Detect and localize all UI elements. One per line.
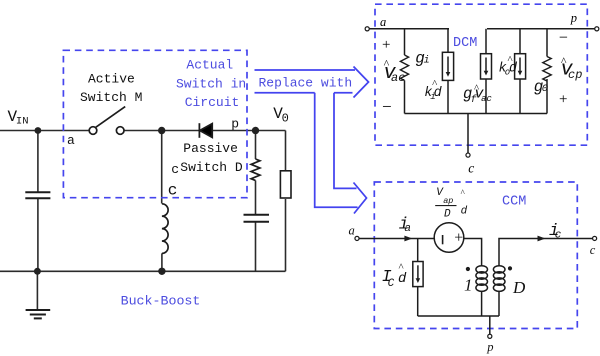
svg-text:p: p	[570, 11, 577, 25]
wire output RC top	[255, 131, 257, 160]
wire kid leg bottom	[447, 80, 449, 113]
terminal a DCM	[365, 27, 369, 31]
svg-text:cp: cp	[568, 68, 582, 82]
ground	[26, 310, 51, 318]
source Vap/D d circle	[434, 223, 464, 253]
svg-text:a: a	[349, 223, 355, 237]
label gi	[415, 50, 429, 68]
wire input cap bottom	[37, 198, 39, 271]
wire g0 leg bottom	[546, 79, 548, 114]
label IC d	[382, 262, 407, 290]
svg-text:Buck-Boost: Buck-Boost	[121, 294, 201, 309]
wire input cap top	[37, 131, 39, 193]
arrow band top line	[255, 69, 356, 71]
label gf vac	[463, 82, 492, 106]
label a DCM	[380, 15, 386, 29]
svg-text:c: c	[555, 229, 562, 241]
arrow band bottom line left	[255, 92, 315, 94]
terminal p CCM	[488, 334, 492, 338]
wire IC to bottom	[417, 287, 419, 316]
wire IC leg	[417, 239, 419, 262]
wire gfvac leg bottom	[485, 79, 487, 114]
dot winding 2	[508, 266, 512, 270]
svg-text:D: D	[512, 278, 526, 297]
svg-text:a: a	[67, 133, 75, 148]
arrow chevron top	[354, 67, 369, 98]
wire c tap	[467, 114, 469, 153]
label V0	[273, 105, 289, 126]
arrow branch outer	[315, 93, 358, 208]
svg-text:d: d	[461, 206, 468, 218]
label ki d	[424, 78, 442, 102]
resistor ESR zigzag	[251, 159, 260, 181]
inductor L	[162, 204, 168, 254]
wire inductor bottom	[161, 253, 163, 271]
label plus left	[382, 37, 390, 53]
node p junction	[252, 127, 259, 134]
svg-text:i: i	[424, 55, 430, 67]
arrowhead ic	[538, 236, 546, 242]
svg-text:DCM: DCM	[453, 36, 477, 51]
svg-text:c: c	[171, 162, 179, 177]
wire ia	[360, 238, 435, 240]
svg-text:c: c	[468, 160, 474, 175]
svg-text:Switch in: Switch in	[176, 77, 246, 92]
terminal p DCM	[595, 27, 599, 31]
label p DCM	[570, 11, 577, 25]
svg-text:ac: ac	[391, 71, 405, 85]
svg-text:Switch D: Switch D	[180, 160, 243, 175]
input capacitor	[25, 192, 50, 198]
label node a	[67, 133, 75, 148]
resistor gi	[400, 55, 408, 80]
svg-text:+: +	[382, 37, 390, 53]
label ia	[399, 216, 411, 236]
wire winding2 bottom	[498, 291, 500, 316]
source gf vac	[481, 54, 492, 79]
label a CCM	[349, 223, 355, 237]
svg-text:C: C	[388, 278, 395, 290]
label c DCM	[468, 160, 474, 175]
wire kod leg top	[519, 29, 521, 54]
label ko d	[499, 54, 519, 78]
wire kid leg top	[447, 29, 449, 53]
label DCM	[453, 36, 477, 51]
svg-text:−: −	[382, 97, 392, 116]
svg-text:−: −	[559, 30, 568, 47]
dashed box actual switch	[63, 50, 247, 197]
wire winding2 top	[499, 239, 540, 266]
label Active Switch M	[80, 72, 142, 106]
svg-text:0: 0	[282, 112, 289, 126]
svg-text:+: +	[559, 92, 567, 108]
svg-text:Switch M: Switch M	[80, 90, 142, 105]
label Replace with	[259, 76, 353, 91]
svg-text:p: p	[486, 340, 493, 354]
wire gi leg top	[404, 29, 406, 55]
label VIN	[8, 108, 29, 128]
terminal c CCM	[593, 236, 597, 240]
svg-text:Circuit: Circuit	[185, 95, 240, 110]
label c CCM	[590, 243, 596, 257]
svg-text:+: +	[454, 230, 463, 247]
wire load bottom	[285, 199, 287, 271]
svg-text:c: c	[590, 243, 596, 257]
svg-text:Passive: Passive	[183, 141, 238, 156]
label g0	[534, 78, 548, 96]
switch M contacts	[89, 127, 124, 135]
svg-text:0: 0	[542, 83, 548, 95]
dot winding 1	[466, 267, 470, 271]
transformer winding 1	[476, 266, 488, 292]
svg-text:a: a	[404, 223, 411, 235]
wire ic	[540, 238, 592, 240]
wire top left cell	[369, 28, 449, 30]
switch M lever	[96, 107, 126, 128]
wire cap to bottom	[255, 222, 257, 272]
diode D	[199, 123, 212, 138]
node ground junction	[34, 268, 41, 275]
wire bottom rail DCM	[405, 113, 548, 115]
resistor g0	[543, 57, 551, 81]
wire source to xfmr	[464, 239, 482, 266]
label v ac hat	[383, 56, 405, 84]
label node c	[168, 182, 178, 200]
dashed box DCM	[375, 4, 587, 145]
svg-text:IN: IN	[16, 116, 29, 128]
label CCM	[502, 195, 526, 210]
load resistor R	[280, 171, 291, 198]
label p CCM	[486, 340, 493, 354]
label v cp hat	[561, 54, 583, 82]
svg-text:a: a	[380, 15, 386, 29]
wire switch to diode	[124, 130, 199, 132]
terminal c DCM	[466, 153, 470, 157]
label plus right	[559, 92, 567, 108]
label Buck-Boost	[121, 294, 201, 309]
svg-text:D: D	[444, 208, 451, 220]
label Passive Switch D	[180, 141, 243, 175]
label node c small	[171, 162, 179, 177]
node inductor junction	[158, 268, 165, 275]
arrowhead ia	[404, 236, 412, 242]
terminal a CCM	[355, 236, 359, 240]
svg-text:p: p	[231, 117, 239, 132]
svg-text:^: ^	[460, 188, 465, 198]
wire diode to V0 node	[211, 130, 285, 132]
svg-text:CCM: CCM	[502, 195, 526, 210]
label Actual Switch in Circuit	[176, 58, 246, 111]
arrow band bottom line right	[334, 92, 353, 94]
wire top right cell	[487, 28, 595, 30]
source IC d rect	[413, 262, 423, 287]
wire ground stem	[36, 271, 38, 310]
svg-text:Replace with: Replace with	[259, 76, 353, 91]
wire gfvac leg top	[485, 29, 487, 54]
transformer winding 2	[493, 266, 505, 292]
wire kod leg bottom	[519, 79, 521, 114]
wire V0 branch down	[285, 131, 287, 172]
label D	[512, 278, 526, 297]
node a junction	[158, 127, 165, 134]
dashed box CCM	[374, 182, 577, 329]
label Vap/D d	[435, 187, 467, 220]
arrow chevron bottom	[354, 183, 367, 214]
wire winding1 bottom	[481, 291, 483, 316]
svg-text:1: 1	[464, 276, 473, 295]
label minus left	[382, 97, 392, 116]
arrow branch inner	[334, 93, 357, 189]
source ki d	[442, 52, 453, 80]
output capacitor	[244, 215, 270, 222]
svg-text:c: c	[168, 182, 178, 200]
wire inductor top	[161, 131, 163, 204]
label minus right	[559, 30, 568, 47]
source ko d	[515, 54, 526, 79]
svg-text:Active: Active	[88, 72, 135, 87]
wire gi leg bottom	[404, 80, 406, 113]
wire g0 leg top	[546, 29, 548, 57]
source polarity bar	[442, 235, 444, 244]
label ic	[549, 222, 562, 242]
wire resistor to cap	[255, 181, 257, 215]
svg-text:ac: ac	[481, 94, 492, 104]
node VIN junction	[35, 127, 42, 134]
wire p tap	[489, 316, 491, 334]
label 1	[464, 276, 473, 295]
svg-text:ap: ap	[443, 196, 453, 206]
wire bottom rail CCM	[418, 315, 499, 317]
wire input top	[0, 130, 89, 132]
source polarity plus	[454, 230, 463, 247]
svg-text:Actual: Actual	[186, 58, 233, 73]
wire bottom rail	[0, 270, 286, 272]
label node p	[231, 117, 239, 132]
